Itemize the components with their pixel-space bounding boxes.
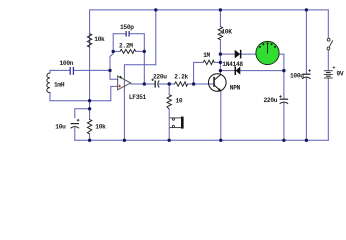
wire switch to battery	[327, 50, 329, 69]
op-amp input mark top (dark)	[119, 76, 122, 79]
wire 150p right vertical	[129, 34, 144, 52]
capacitor C 100n plates	[70, 67, 73, 75]
meter M1 green dial	[256, 41, 279, 64]
svg-text:100u: 100u	[290, 73, 304, 80]
wire tank top row	[50, 70, 70, 73]
inductor L1 1mH coil	[47, 73, 50, 93]
wire meter right	[279, 54, 284, 71]
diode D1 1N4148 pointing right	[235, 50, 242, 59]
resistor R 2.2M	[120, 49, 136, 53]
wire 150p left vertical	[113, 34, 126, 52]
wire 2.2M right lead	[136, 50, 145, 52]
transistor Q1 NPN circle	[209, 74, 227, 92]
wire diode2 row left	[220, 70, 235, 72]
earpiece crystal earphone	[170, 118, 181, 128]
wire feedback column	[143, 51, 145, 84]
wire 220u cap to rail	[283, 103, 285, 140]
svg-text:10K: 10K	[221, 28, 232, 35]
resistor R 2.2k	[175, 82, 188, 86]
transistor Q1 emitter diagonal with arrow	[215, 86, 221, 91]
resistor R 10K right column	[218, 27, 222, 40]
meter needle	[267, 44, 269, 54]
wire 2.2M left lead	[113, 50, 120, 52]
svg-text:1mH: 1mH	[54, 81, 65, 88]
wire 10K column to diode rows	[219, 40, 221, 71]
wire output row	[131, 83, 155, 85]
svg-text:1N4148: 1N4148	[222, 61, 243, 68]
diode D2 1N4148 pointing left	[235, 66, 241, 75]
svg-text:1M: 1M	[203, 52, 210, 59]
wire 220u column	[283, 71, 285, 99]
svg-text:220u: 220u	[153, 73, 167, 80]
capacitor C 10u electrolytic	[71, 119, 80, 128]
svg-text:10k: 10k	[95, 123, 106, 130]
wire 100u column	[305, 10, 307, 74]
wire 100u cap to rail	[305, 78, 307, 141]
wire 10K column top	[219, 10, 221, 27]
svg-text:150p: 150p	[120, 24, 134, 31]
svg-text:10: 10	[176, 97, 183, 104]
capacitor C 150p plates	[126, 31, 129, 37]
wire diode2 row right	[240, 70, 284, 72]
transistor Q1 base bar	[213, 77, 215, 87]
transistor Q1 collector diagonal	[215, 75, 221, 80]
resistor R 10k bottom-left	[87, 119, 91, 133]
wire top rail	[90, 10, 329, 47]
wire left column below 10k	[89, 47, 91, 119]
wire opamp V+ jog from rail	[124, 10, 155, 140]
resistor R 10 ohm	[167, 95, 171, 110]
wire base lead	[188, 83, 214, 85]
wire step to inverting input	[111, 86, 118, 100]
wire collector stub	[219, 71, 221, 75]
wire bottom rail	[75, 139, 328, 141]
svg-text:10u: 10u	[55, 123, 66, 130]
svg-text:9V: 9V	[337, 71, 344, 78]
op-amp U1 LF351 triangle	[118, 76, 131, 90]
svg-text:LF351: LF351	[129, 94, 147, 101]
svg-text:NPN: NPN	[230, 85, 241, 92]
wire tank top row right of 100n	[74, 69, 111, 71]
battery B1 9V	[324, 66, 335, 78]
wire diode1 row right to meter	[241, 53, 256, 55]
wire inductor bottom	[50, 93, 111, 101]
op-amp input mark bottom (red)	[118, 85, 121, 88]
wire 1M right lead	[214, 61, 220, 63]
capacitor C 100u	[302, 69, 311, 79]
wire emitter column	[220, 91, 222, 140]
wire 10-ohm column	[168, 84, 170, 95]
svg-text:2.2k: 2.2k	[174, 73, 188, 80]
wire output row after cap	[159, 83, 175, 85]
wire 10u cap to rail	[74, 128, 76, 140]
wire diode1 row left	[220, 53, 234, 55]
wire left column to bottom rail	[89, 134, 91, 140]
meter scale dots	[259, 42, 276, 48]
resistor R 1M	[203, 60, 214, 64]
wire 10u branch	[75, 109, 90, 118]
wire battery to rail	[327, 78, 329, 140]
capacitor C 220u coupling at opamp output	[151, 79, 159, 88]
switch S1	[327, 38, 333, 50]
resistor R 10k top-left	[87, 34, 91, 48]
svg-text:10k: 10k	[94, 36, 105, 43]
wire 10-ohm column to rail	[168, 109, 170, 140]
wire input node column	[110, 51, 118, 79]
capacitor C 220u at meter column	[279, 95, 288, 104]
wire 1M drop column	[194, 62, 204, 84]
svg-text:220u: 220u	[264, 97, 278, 104]
svg-text:100n: 100n	[60, 60, 74, 67]
svg-text:2.2M: 2.2M	[119, 42, 133, 49]
